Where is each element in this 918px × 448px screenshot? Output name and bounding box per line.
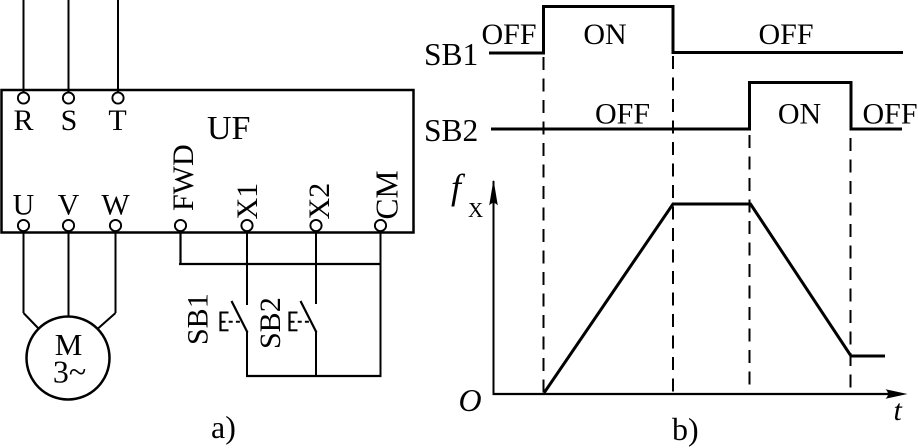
svg-text:W: W <box>101 189 130 222</box>
svg-text:UF: UF <box>207 110 250 147</box>
svg-text:X: X <box>468 198 483 222</box>
svg-text:FWD: FWD <box>167 144 200 211</box>
svg-text:OFF: OFF <box>481 18 536 51</box>
svg-text:ON: ON <box>778 98 821 131</box>
svg-text:t: t <box>894 394 903 427</box>
svg-text:R: R <box>13 104 33 137</box>
svg-text:OFF: OFF <box>758 18 813 51</box>
svg-text:SB2: SB2 <box>254 297 287 349</box>
svg-text:T: T <box>108 104 126 137</box>
svg-text:SB1: SB1 <box>182 293 215 345</box>
svg-text:X1: X1 <box>231 183 264 220</box>
svg-text:b): b) <box>672 411 699 447</box>
svg-text:O: O <box>459 382 482 418</box>
svg-text:U: U <box>13 189 35 222</box>
svg-text:SB1: SB1 <box>424 37 478 72</box>
svg-text:a): a) <box>211 409 236 445</box>
svg-text:3~: 3~ <box>53 354 86 390</box>
svg-text:SB2: SB2 <box>424 113 478 148</box>
svg-text:V: V <box>58 189 80 222</box>
svg-text:S: S <box>61 104 78 137</box>
svg-text:OFF: OFF <box>595 98 650 131</box>
svg-text:X2: X2 <box>303 183 336 220</box>
svg-text:ON: ON <box>583 18 626 51</box>
svg-text:OFF: OFF <box>862 98 917 131</box>
svg-text:CM: CM <box>370 170 405 219</box>
